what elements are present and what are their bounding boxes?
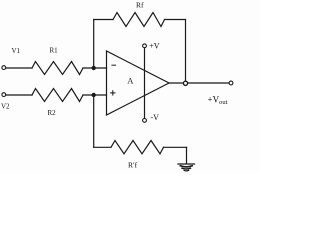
- svg-text:+V: +V: [149, 42, 160, 51]
- svg-text:R′f: R′f: [128, 160, 138, 169]
- svg-text:V1: V1: [12, 47, 21, 55]
- junction output node: [183, 81, 187, 85]
- wire Rf to right feedback corner: [165, 19, 186, 21]
- op-amp minus input sign: [112, 64, 116, 66]
- wire V2 terminal to R2: [6, 94, 32, 96]
- wire feedback rail to Rf: [94, 19, 113, 21]
- wire feedback down to output node: [185, 20, 187, 84]
- wire inverting node up to feedback rail: [93, 20, 95, 69]
- wire R1 to inverting node: [83, 67, 107, 69]
- terminal V1: [2, 66, 6, 70]
- wire R'f to ground: [164, 146, 187, 148]
- terminal +Vod output: [229, 81, 233, 85]
- ground: [178, 164, 195, 171]
- svg-text:Rf: Rf: [136, 1, 144, 10]
- junction node non-inverting input: [92, 93, 96, 97]
- wire output: [169, 82, 229, 84]
- svg-text:-V: -V: [151, 113, 160, 122]
- resistor R'f: [111, 141, 164, 154]
- svg-text:R1: R1: [50, 46, 59, 54]
- op-amp A triangle: [107, 51, 170, 115]
- svg-text:V2: V2: [1, 103, 10, 111]
- resistor Rf: [113, 13, 165, 27]
- resistor R2: [32, 89, 83, 102]
- resistor R1: [32, 62, 83, 75]
- junction node inverting input: [92, 66, 96, 70]
- wire bottom run to R'f: [94, 146, 111, 148]
- svg-text:R2: R2: [48, 109, 57, 117]
- svg-text:A: A: [127, 76, 134, 86]
- op-amp plus input sign: [111, 91, 115, 95]
- op-amp supply rail: [144, 48, 146, 118]
- wire non-inverting node down: [93, 95, 95, 147]
- terminal +V supply: [143, 44, 147, 48]
- wire R2 to non-inverting node: [83, 94, 107, 96]
- terminal V2: [2, 93, 6, 97]
- svg-text:+Vout: +Vout: [208, 94, 228, 106]
- wire V1 terminal to R1: [6, 67, 32, 69]
- wire down to ground symbol: [186, 147, 188, 164]
- terminal -V supply: [143, 119, 147, 123]
